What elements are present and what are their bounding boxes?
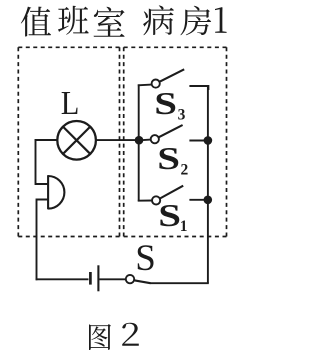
- wire lamp left lead: [35, 139, 57, 141]
- lamp label L: [61, 83, 80, 121]
- ward 1 dashed box: [124, 47, 227, 236]
- battery long plate (positive): [97, 265, 99, 291]
- left bus wire of switch branches: [138, 84, 140, 201]
- svg-text:2: 2: [181, 162, 189, 179]
- switch S: [126, 275, 151, 283]
- lamp L: [57, 121, 96, 160]
- wire S1 right stub: [189, 199, 208, 201]
- battery short plate (negative): [89, 272, 92, 285]
- caption 图 2: [89, 323, 139, 350]
- node C junction dot: [204, 196, 213, 205]
- wire bottom right segment: [150, 282, 209, 284]
- label S2: [157, 141, 180, 176]
- svg-text:S: S: [154, 85, 177, 120]
- svg-text:L: L: [61, 83, 80, 121]
- wire bottom left segment: [36, 278, 89, 280]
- duty room dashed box: [18, 47, 119, 236]
- label 值班室 (duty room): [21, 6, 125, 37]
- switch S1: [138, 186, 183, 205]
- right bus wire: [207, 85, 209, 283]
- switch S3: [138, 69, 184, 87]
- wire battery to switch S: [99, 278, 126, 280]
- label S3: [154, 85, 177, 120]
- wire bell lower terminal down to bottom: [37, 200, 48, 281]
- svg-text:S: S: [135, 238, 156, 279]
- node A junction dot: [135, 136, 144, 145]
- wire lamp right lead to node A: [96, 139, 139, 141]
- label S1: [158, 198, 181, 233]
- svg-text:S: S: [158, 198, 181, 233]
- svg-text:1: 1: [180, 218, 188, 235]
- electric bell: [48, 175, 64, 209]
- svg-text:S: S: [157, 141, 180, 176]
- svg-text:3: 3: [178, 107, 186, 124]
- wire S3 right stub: [189, 86, 208, 90]
- switch S2: [143, 125, 183, 143]
- label 病房1 (ward 1): [143, 5, 227, 35]
- wire left vertical down to bell upper terminal: [36, 139, 48, 184]
- node B junction dot: [204, 136, 213, 145]
- wire S2 right stub: [189, 140, 208, 142]
